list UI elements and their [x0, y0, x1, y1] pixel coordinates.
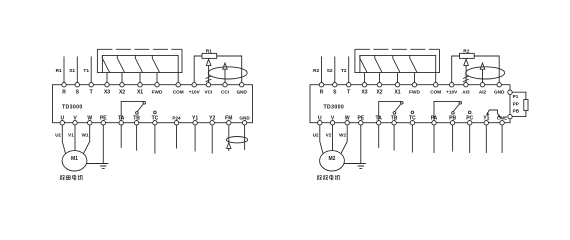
svg-text:S1: S1: [69, 68, 75, 74]
terminal Y1 (bottom row): [193, 121, 197, 125]
svg-text:R2: R2: [463, 49, 469, 55]
svg-text:S2: S2: [327, 68, 333, 74]
terminal COM (top row): [434, 83, 438, 87]
motor caption zhu-dong-dian-ji: [60, 175, 83, 180]
control switch box enclosure (dashed top): [97, 48, 182, 50]
wire wiper to VCI: [208, 65, 210, 82]
wire COM to switch common: [177, 73, 179, 83]
braking resistor RB: [524, 100, 528, 111]
switch S1 blade (X3): [102, 55, 109, 72]
svg-text:V2: V2: [326, 132, 332, 137]
wire FWD to switch: [414, 73, 416, 83]
svg-text:U2: U2: [313, 132, 319, 137]
relay blade PB: [453, 104, 459, 112]
svg-text:AI2: AI2: [479, 90, 487, 95]
relay blade pivot PB: [452, 112, 455, 115]
terminal R (top row): [62, 83, 66, 87]
wire FWD to switch: [156, 73, 158, 83]
wire from TA (dangling, right): [378, 125, 380, 148]
shielded cable ellipse: [466, 67, 505, 79]
svg-text:X3: X3: [104, 90, 110, 96]
svg-text:R2: R2: [313, 68, 319, 74]
wire from Y1 (dangling): [194, 125, 196, 152]
switch common bus: [102, 55, 178, 72]
terminal W (bottom row): [88, 121, 92, 125]
svg-text:FWD: FWD: [409, 90, 420, 95]
switch S1 blade (X3): [360, 55, 367, 72]
terminal X3 (top row): [362, 83, 366, 87]
svg-text:GND: GND: [494, 90, 505, 95]
svg-text:R: R: [62, 90, 66, 96]
terminal +10V (top row): [192, 83, 196, 87]
terminal AI2 (top row): [480, 83, 484, 87]
svg-text:PE: PE: [357, 116, 364, 122]
terminal TA (bottom row): [119, 121, 123, 125]
signal arrow into AI2: [480, 63, 485, 69]
wire COM to switch common: [435, 73, 437, 83]
wire from TA (dangling): [120, 125, 122, 148]
terminal GND (bottom row): [242, 121, 246, 125]
wire X2 to switch: [121, 73, 123, 83]
wire X3 to switch: [364, 73, 366, 83]
motor caption shou-xian-dian-ji: [317, 175, 340, 180]
control switch box sides and bottom: [355, 49, 440, 72]
svg-text:U: U: [60, 116, 64, 122]
svg-text:R1: R1: [206, 49, 212, 55]
svg-text:X2: X2: [119, 90, 125, 96]
wire W to motor M2: [341, 125, 347, 154]
inverter block TD3000 (right): [310, 85, 510, 123]
wire from CME (dangling, right): [501, 125, 503, 153]
terminal GND (top row): [240, 83, 244, 87]
wire arrow to CCI: [224, 69, 226, 82]
wire X3 to switch: [106, 73, 108, 83]
wire input phase R1: [63, 56, 65, 82]
wire X1 to switch: [397, 73, 399, 83]
inverter block TD3000 (left): [53, 85, 253, 123]
relay fixed contact point PB: [459, 102, 462, 105]
svg-text:TC: TC: [152, 116, 159, 122]
wire from TC (dangling, right): [411, 125, 413, 153]
wire U to motor M1: [62, 125, 65, 154]
relay fixed contact point: [401, 102, 404, 105]
terminal VCI (top row): [206, 83, 210, 87]
terminal FWD (top row): [412, 83, 416, 87]
terminal COM (top row): [176, 83, 180, 87]
wire input phase S1: [76, 56, 78, 82]
svg-text:W1: W1: [82, 132, 89, 137]
wire from PA (dangling, right): [433, 125, 435, 153]
terminal TB (bottom row): [134, 121, 138, 125]
wire from Y1 (dangling, right): [485, 125, 487, 153]
svg-text:+10V: +10V: [446, 90, 458, 95]
switch S4 blade (FWD): [152, 55, 159, 72]
svg-text:VCI: VCI: [204, 90, 212, 95]
svg-text:TB: TB: [391, 116, 398, 122]
wire R1 to +10V: [194, 56, 202, 83]
terminal X1 (top row): [138, 83, 142, 87]
svg-text:GND: GND: [239, 116, 250, 121]
wire motor frame to ground: [86, 163, 103, 165]
wire W to motor M1: [84, 125, 90, 154]
wire P1 to braking resistor: [512, 92, 526, 99]
svg-text:U: U: [318, 116, 322, 122]
svg-text:FM: FM: [225, 116, 232, 122]
switch common bus: [360, 55, 436, 72]
terminal PE (bottom row): [359, 121, 363, 125]
potentiometer wiper arrow: [206, 59, 211, 65]
wire from FM to frequency meter: [228, 125, 230, 143]
svg-text:TB: TB: [133, 116, 140, 122]
switch S2 blade (X2): [375, 55, 382, 72]
ground symbol: [98, 164, 108, 169]
terminal X2 (top row): [120, 83, 124, 87]
terminal V (bottom row): [330, 121, 334, 125]
wire V to motor M1: [74, 125, 76, 151]
control switch box sides and bottom: [97, 49, 182, 72]
terminal TB (bottom row): [392, 121, 396, 125]
switch S3 blade (X1): [135, 55, 142, 72]
wire from TB (dangling, right): [393, 125, 395, 151]
potentiometer R1: [202, 53, 217, 58]
svg-text:X1: X1: [137, 90, 143, 96]
wire V to motor M2: [332, 125, 334, 151]
wire from Y2 (dangling): [211, 125, 213, 154]
wire R2 to +10V: [452, 56, 460, 83]
wire R1 to GND: [217, 56, 242, 83]
svg-text:T: T: [90, 90, 93, 96]
relay contact PA-PB: [434, 101, 460, 120]
terminal S (top row): [333, 83, 337, 87]
switch S4 blade (FWD): [410, 55, 417, 72]
svg-text:P1: P1: [513, 94, 519, 99]
terminal T (top row): [347, 83, 351, 87]
svg-text:X3: X3: [361, 90, 367, 96]
wire X1 to switch: [139, 73, 141, 83]
motor M1: [62, 151, 87, 171]
potentiometer R2: [460, 53, 475, 58]
terminal PA (bottom row): [432, 121, 436, 125]
svg-text:PP: PP: [513, 101, 519, 106]
twisted pair marks: [206, 76, 212, 82]
terminal Y2 (bottom row): [210, 121, 214, 125]
terminal +10V (top row): [450, 83, 454, 87]
motor M2: [320, 151, 345, 171]
terminal GND (top row): [497, 83, 501, 87]
wire X2 to switch: [379, 73, 381, 83]
relay contact TA-TB: [121, 101, 144, 120]
svg-text:T2: T2: [341, 68, 347, 74]
wire from TC (dangling): [154, 125, 156, 154]
wire R2 to GND: [474, 56, 499, 83]
wire from PC (dangling, right): [469, 125, 471, 153]
control switch box enclosure (dashed top): [355, 48, 440, 50]
terminal FM (bottom row): [227, 121, 231, 125]
wire from GND (dangling): [244, 125, 246, 150]
terminal W (bottom row): [345, 121, 349, 125]
svg-text:W2: W2: [339, 132, 346, 137]
wire PE to ground: [360, 125, 362, 164]
svg-text:Y1: Y1: [483, 116, 489, 122]
terminal PB (right edge): [508, 114, 512, 118]
terminal PE (bottom row): [101, 121, 105, 125]
arrow on FM wire: [227, 143, 231, 149]
svg-text:PB: PB: [513, 109, 520, 114]
relay contact TA-TB: [379, 101, 402, 120]
svg-text:Y1: Y1: [192, 116, 198, 122]
relay blade TB: [137, 104, 143, 112]
svg-text:AI3: AI3: [462, 90, 470, 95]
terminal Y1 (bottom row): [484, 121, 488, 125]
contact point above TC: [411, 111, 414, 114]
svg-text:W: W: [345, 116, 350, 122]
terminal FWD (top row): [155, 83, 159, 87]
wire FM continues: [228, 148, 230, 151]
svg-text:PB: PB: [449, 116, 456, 122]
svg-text:R: R: [320, 90, 324, 96]
svg-text:T1: T1: [83, 68, 89, 74]
terminal TC (bottom row): [410, 121, 414, 125]
svg-text:COM: COM: [430, 90, 441, 95]
wire from P24 (dangling): [176, 125, 178, 149]
wire from TB (dangling): [136, 125, 138, 151]
svg-text:P24: P24: [172, 116, 181, 121]
contact point above PC: [468, 111, 471, 114]
signal arrow into CCI: [223, 63, 228, 69]
wire PE to ground: [102, 125, 104, 164]
shielded cable ellipse FM/GND: [226, 137, 247, 143]
svg-text:CCI: CCI: [221, 90, 229, 95]
terminal V (bottom row): [73, 121, 77, 125]
svg-text:GND: GND: [236, 90, 247, 95]
ground symbol: [356, 164, 366, 169]
terminal TA (bottom row): [377, 121, 381, 125]
terminal X1 (top row): [395, 83, 399, 87]
wire from PB (dangling, right): [452, 125, 454, 152]
wire wiper to AI3: [465, 65, 467, 82]
terminal T (top row): [89, 83, 93, 87]
relay fixed contact point: [143, 102, 146, 105]
wire input phase S2: [334, 56, 336, 82]
svg-text:TC: TC: [409, 116, 416, 122]
wire input phase T2: [348, 56, 350, 82]
terminal P24 (bottom row): [174, 121, 178, 125]
svg-text:TD3000: TD3000: [62, 105, 83, 111]
svg-text:T: T: [347, 90, 350, 96]
svg-text:U1: U1: [55, 132, 61, 137]
twisted pair marks: [463, 76, 469, 82]
wire input phase R2: [321, 56, 323, 82]
relay blade pivot TB: [136, 112, 139, 115]
svg-text:R1: R1: [56, 68, 62, 74]
svg-text:FWD: FWD: [152, 90, 163, 95]
wire U to motor M2: [320, 125, 323, 154]
svg-text:M2: M2: [329, 156, 336, 162]
terminal R (top row): [319, 83, 323, 87]
svg-text:TD3000: TD3000: [324, 105, 345, 111]
switch S3 blade (X1): [393, 55, 400, 72]
terminal PC (bottom row): [468, 121, 472, 125]
relay blade TB: [395, 104, 401, 112]
terminal S (top row): [75, 83, 79, 87]
svg-text:COM: COM: [173, 90, 184, 95]
terminal X3 (top row): [105, 83, 109, 87]
shielded cable ellipse: [208, 67, 247, 79]
terminal AI3 (top row): [464, 83, 468, 87]
contact point above TC: [154, 111, 157, 114]
terminal U (bottom row): [318, 121, 322, 125]
switch S2 blade (X2): [117, 55, 124, 72]
terminal U (bottom row): [60, 121, 64, 125]
open collector output Y1: [487, 110, 501, 118]
terminal P1 (right edge): [508, 90, 512, 94]
terminal X2 (top row): [377, 83, 381, 87]
svg-text:Y2: Y2: [209, 116, 215, 122]
svg-text:W: W: [87, 116, 92, 122]
relay blade pivot TB: [393, 112, 396, 115]
svg-text:+10V: +10V: [189, 90, 201, 95]
svg-text:PC: PC: [466, 116, 473, 122]
base arrowhead Y1: [487, 112, 490, 115]
wire motor frame to ground: [344, 163, 361, 165]
wire braking resistor to PB: [512, 111, 526, 117]
wire arrow to AI2: [482, 69, 484, 82]
svg-text:X2: X2: [376, 90, 382, 96]
terminal TC (bottom row): [153, 121, 157, 125]
svg-text:M1: M1: [71, 156, 78, 162]
potentiometer wiper arrow: [464, 59, 469, 65]
terminal CCI (top row): [223, 83, 227, 87]
wire input phase T1: [90, 56, 92, 82]
svg-text:V1: V1: [68, 132, 74, 137]
emitter arrowhead CME: [498, 115, 502, 118]
svg-text:X1: X1: [394, 90, 400, 96]
terminal CME (bottom row): [500, 121, 504, 125]
svg-text:PE: PE: [100, 116, 107, 122]
terminal PB (bottom row): [450, 121, 454, 125]
